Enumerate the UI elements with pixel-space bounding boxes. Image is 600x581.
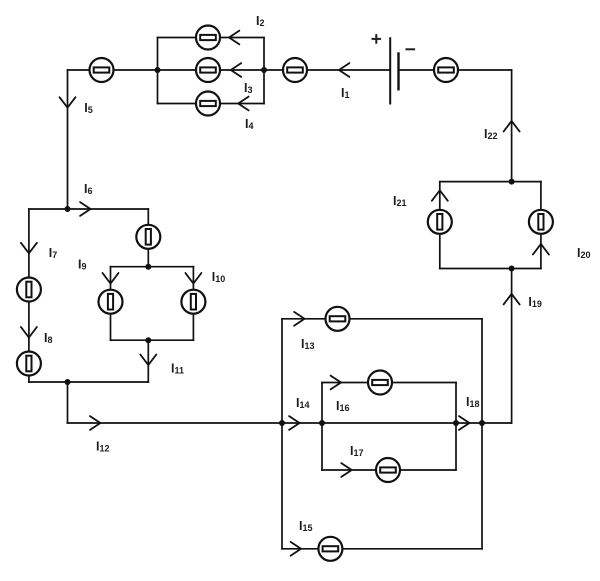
current arrow I5 [60,97,76,108]
current arrow I12 [90,416,100,430]
wire parallel group bottom branch I4 [158,103,265,105]
wire sub-loop bottom horizontal [111,339,194,341]
battery plus terminal label [372,34,382,44]
wire sub-loop top horizontal [111,266,194,268]
wire inner block right rail [455,383,457,471]
wire I19 vertical [511,269,513,424]
wire sub-loop left rail I9 [110,267,112,341]
lamp L8 (I8 branch) [17,352,41,376]
lamp L14 (I17 branch) [376,458,400,482]
wire I16 horizontal [322,382,456,384]
junction node top-parallel left [155,67,161,73]
junction node right loop top [509,179,515,185]
junction node sub-loop top [145,264,151,270]
current arrow I14 [289,416,299,430]
current arrow I2 [229,31,239,45]
junction node sub-loop bottom [145,337,151,343]
wire parallel group top branch I2 [158,37,265,39]
junction node bottom-left [65,379,71,385]
junction node block right rail [479,420,485,426]
current arrow I13 [294,312,304,326]
wire right loop left rail I21 [439,182,441,269]
wire I15 horizontal [282,548,482,550]
current arrow I4 [238,97,248,111]
wire parallel group left rail [157,38,159,104]
wire middle branch vertical to sub-loop [147,209,149,267]
wire right loop top horizontal [440,181,541,183]
junction node inner block right [453,420,459,426]
current arrow I22 [504,121,520,132]
lamp L1 (top chain left) [90,58,114,82]
wire I11 vertical [147,340,149,382]
wire top-left horizontal (battery + to parallel group) [68,69,391,71]
wire bottom block left rail [281,319,283,549]
junction node inner block left [319,420,325,426]
battery minus terminal label [406,48,416,50]
wire I17 horizontal [322,469,456,471]
lamp L7 (I7 branch) [17,278,41,302]
current arrow I19 [504,294,520,305]
wire bottom block right rail [481,319,483,549]
wire I13 horizontal [282,318,482,320]
current arrow I18 [459,416,469,430]
current arrow I11 [140,355,156,366]
lamp L15 (I15 branch) [318,537,342,561]
current arrow I20 [533,244,549,255]
wire I12 main bottom horizontal [68,422,512,424]
lamp L10 (I9 branch) [99,290,123,314]
wire bottom-left horizontal [29,381,148,383]
wire I6 horizontal [29,208,148,210]
lamp L16 (I21 branch) [428,210,452,234]
current arrow I10 [185,273,201,284]
current arrow I6 [80,202,90,216]
lamp L3 (I3 branch) [196,58,220,82]
wire parallel group right rail [263,38,265,104]
current arrow I17 [341,463,351,477]
wire left vertical I5 [67,70,69,209]
junction node top-parallel right [261,67,267,73]
lamp L17 (I20 branch) [529,210,553,234]
lamp L13 (I16 branch) [368,371,392,395]
current arrow I3 [231,63,241,77]
lamp L4 (I4 branch) [196,92,220,116]
lamp L2 (I2 branch) [196,26,220,50]
battery BT1 [390,37,398,104]
lamp L5 (top chain middle) [283,58,307,82]
current arrow I9 [103,273,119,284]
wire right loop right rail I20 [540,182,542,269]
lamp L9 (above sub-loop) [136,225,160,249]
junction node I6 [65,206,71,212]
wire inner block left rail [321,383,323,471]
current arrow I21 [432,190,448,201]
wire sub-loop right rail I10 [192,267,194,341]
wire right loop bottom horizontal [440,268,541,270]
current arrow I1 [339,63,349,77]
wire right vertical I22 [511,70,513,182]
wire left drop vertical [67,382,69,423]
current arrow I8 [21,327,37,338]
wire top-right horizontal (battery - to right corner) [399,69,512,71]
lamp L11 (I10 branch) [181,290,205,314]
junction node right loop bottom [509,266,515,272]
junction node main bottom left [279,420,285,426]
current arrow I7 [21,243,37,254]
current arrow I15 [291,542,301,556]
wire left branch vertical I7-I8 [28,209,30,382]
current arrow I16 [331,376,341,390]
lamp L12 (I13 branch) [326,307,350,331]
lamp L6 (right of battery) [434,58,458,82]
